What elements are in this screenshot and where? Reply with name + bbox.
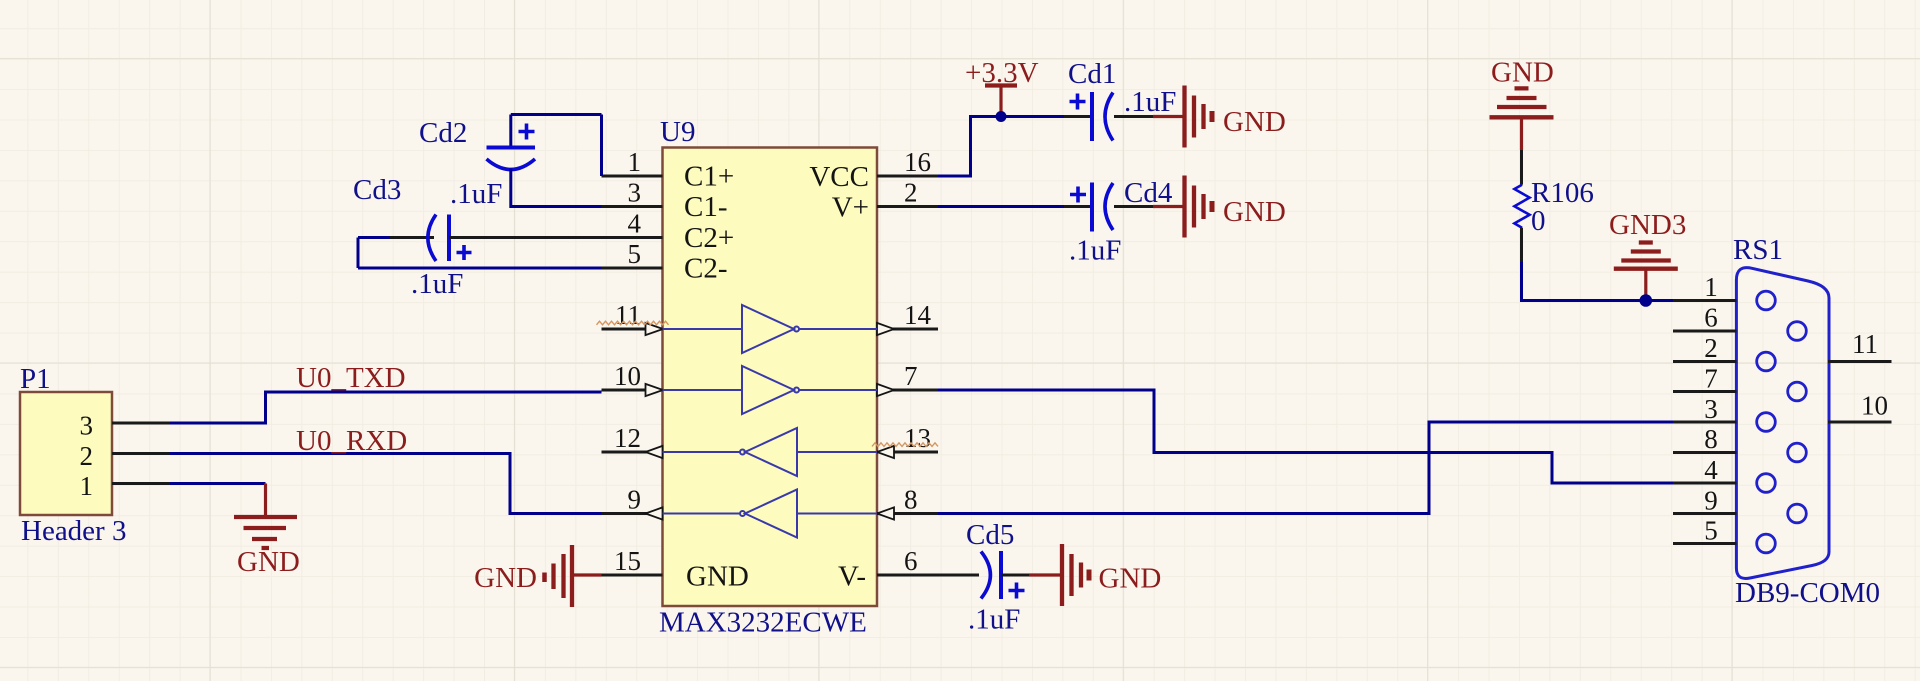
- svg-text:9: 9: [1704, 486, 1718, 516]
- capacitor Cd5: [938, 551, 1029, 599]
- svg-text:7: 7: [1704, 364, 1718, 394]
- capacitor Cd2: [487, 115, 602, 207]
- svg-text:12: 12: [614, 423, 641, 453]
- svg-text:1: 1: [628, 147, 642, 177]
- svg-text:10: 10: [1861, 391, 1888, 421]
- svg-text:U0_RXD: U0_RXD: [296, 425, 407, 457]
- RS1 pin 6 circle: [1788, 322, 1807, 341]
- svg-text:P1: P1: [20, 363, 51, 395]
- power ground GND at U9 pin 15: [545, 545, 602, 607]
- svg-text:GND: GND: [1491, 57, 1554, 89]
- svg-text:4: 4: [628, 209, 642, 239]
- svg-text:U0_TXD: U0_TXD: [296, 362, 406, 394]
- wire U9 pin 8 to RS1 pin 3: [938, 422, 1673, 514]
- wire U9 pin 7 to RS1 pin 4: [938, 390, 1673, 483]
- RS1 pin 6 stub: [1673, 330, 1737, 333]
- svg-text:16: 16: [904, 147, 931, 177]
- svg-text:GND3: GND3: [1609, 209, 1686, 241]
- RS1 pin 10 stub: [1828, 421, 1892, 424]
- svg-text:11: 11: [615, 300, 641, 330]
- junction at +3.3V node: [996, 111, 1007, 122]
- svg-text:.1uF: .1uF: [1124, 86, 1176, 118]
- capacitor Cd1: [1064, 92, 1153, 141]
- U9 pin 6 stub: [877, 574, 938, 577]
- svg-text:1: 1: [80, 471, 94, 501]
- RS1 pin 2 circle: [1757, 352, 1776, 371]
- svg-text:GND: GND: [1099, 563, 1162, 595]
- U9 pin 9 arrow: [646, 507, 663, 519]
- U9 pin 3 stub: [602, 205, 663, 208]
- RS1 pin 11 stub: [1828, 360, 1892, 363]
- svg-text:VCC: VCC: [809, 161, 869, 193]
- RS1 pin 7 stub: [1673, 390, 1737, 393]
- svg-text:GND: GND: [237, 546, 300, 578]
- U9 pin 14 stub: [877, 328, 938, 331]
- U9 pin 14 arrow: [877, 323, 894, 335]
- svg-text:V-: V-: [838, 561, 866, 593]
- resistor R106: [1514, 150, 1529, 262]
- svg-text:.1uF: .1uF: [450, 178, 502, 210]
- wire R106 to RS1 pin 1: [1522, 262, 1674, 301]
- svg-text:6: 6: [904, 546, 918, 576]
- U9 pin 15 stub: [602, 574, 663, 577]
- U9 pin 7 arrow: [877, 384, 894, 396]
- RS1 pin 4 circle: [1757, 474, 1776, 493]
- RS1 pin 2 stub: [1673, 360, 1737, 363]
- svg-text:Cd1: Cd1: [1068, 58, 1116, 90]
- ground GND3: [1614, 243, 1678, 301]
- power ground GND at Cd1: [1153, 86, 1212, 148]
- svg-text:C2-: C2-: [684, 253, 728, 285]
- U9 pin 11 stub: [602, 328, 663, 331]
- svg-text:DB9-COM0: DB9-COM0: [1735, 577, 1880, 609]
- RS1 pin 4 stub: [1673, 482, 1737, 485]
- wire V+ net to Cd4: [938, 205, 1064, 208]
- svg-text:3: 3: [628, 178, 642, 208]
- U9 pin 12 stub: [602, 451, 663, 454]
- P1 pin 2 stub: [112, 452, 170, 455]
- U9 internal buffer T1: [663, 305, 878, 353]
- U9 pin 2 stub: [877, 205, 938, 208]
- RS1 pin 8 circle: [1788, 443, 1807, 462]
- svg-text:Header 3: Header 3: [21, 515, 126, 547]
- wire P1 pin1 to ground: [170, 482, 266, 485]
- power +3.3V symbol: [985, 86, 1017, 117]
- capacitor Cd4: [1064, 183, 1153, 232]
- RS1 pin 1 stub: [1673, 299, 1737, 302]
- ground GND at P1: [234, 484, 297, 549]
- junction at GND3 node: [1640, 294, 1653, 307]
- svg-text:GND: GND: [474, 562, 537, 594]
- svg-text:V+: V+: [832, 192, 869, 224]
- U9 pin 4 stub: [602, 236, 663, 239]
- svg-text:.1uF: .1uF: [968, 604, 1020, 636]
- svg-text:8: 8: [904, 485, 918, 515]
- P1 pin 1 stub: [112, 482, 170, 485]
- U9 pin 12 arrow: [646, 446, 663, 458]
- ground GND top right: [1490, 88, 1554, 150]
- svg-text:GND: GND: [1223, 106, 1286, 138]
- U9 internal buffer T2: [663, 366, 878, 414]
- wire VCC net to +3.3V and Cd1: [938, 117, 1064, 177]
- P1 pin 3 stub: [112, 422, 170, 425]
- RS1 pin 5 circle: [1757, 534, 1776, 553]
- svg-text:.1uF: .1uF: [1069, 235, 1121, 267]
- svg-text:GND: GND: [686, 561, 749, 593]
- U9 internal buffer R2: [663, 490, 878, 538]
- svg-text:U9: U9: [660, 116, 695, 148]
- svg-text:0: 0: [1531, 205, 1546, 237]
- U9 pin 5 stub: [602, 267, 663, 270]
- U9 pin 13 no-ERC squiggle: [872, 443, 938, 447]
- svg-text:MAX3232ECWE: MAX3232ECWE: [659, 607, 867, 639]
- svg-text:11: 11: [1852, 329, 1878, 359]
- RS1 pin 3 circle: [1757, 413, 1776, 432]
- wire net U0_RXD: [170, 454, 602, 514]
- svg-text:2: 2: [80, 441, 94, 471]
- RS1 pin 9 stub: [1673, 512, 1737, 515]
- U9 pin 10 stub: [602, 389, 663, 392]
- U9 pin 8 arrow: [877, 507, 894, 519]
- svg-text:RS1: RS1: [1733, 234, 1783, 266]
- U9 pin 1 stub: [602, 175, 663, 178]
- svg-text:2: 2: [1704, 333, 1718, 363]
- svg-text:7: 7: [904, 361, 918, 391]
- svg-text:3: 3: [1704, 394, 1718, 424]
- U9 pin 13 stub: [877, 451, 938, 454]
- IC U9 body: [663, 148, 878, 607]
- svg-text:C1+: C1+: [684, 161, 734, 193]
- connector P1 body: [20, 392, 112, 515]
- svg-text:2: 2: [904, 178, 918, 208]
- svg-text:5: 5: [628, 239, 642, 269]
- wire net U0_TXD: [170, 392, 602, 423]
- svg-text:1: 1: [1704, 272, 1718, 302]
- U9 internal buffer R1: [663, 428, 878, 476]
- RS1 pin 3 stub: [1673, 421, 1737, 424]
- U9 pin 11 arrow: [646, 323, 664, 335]
- U9 pin 11 no-ERC squiggle: [597, 321, 669, 325]
- svg-text:15: 15: [614, 546, 641, 576]
- svg-text:10: 10: [614, 361, 641, 391]
- svg-text:Cd3: Cd3: [353, 174, 401, 206]
- capacitor Cd3: [358, 215, 602, 269]
- svg-text:4: 4: [1704, 455, 1718, 485]
- RS1 pin 8 stub: [1673, 451, 1737, 454]
- RS1 pin 1 circle: [1757, 291, 1776, 310]
- RS1 pin 9 circle: [1788, 504, 1807, 523]
- RS1 pin 7 circle: [1788, 382, 1807, 401]
- svg-text:+3.3V: +3.3V: [965, 57, 1039, 89]
- U9 pin 16 stub: [877, 175, 938, 178]
- U9 pin 10 arrow: [646, 384, 664, 396]
- svg-text:13: 13: [904, 423, 931, 453]
- U9 pin 8 stub: [877, 512, 938, 515]
- U9 pin 9 stub: [602, 512, 663, 515]
- svg-text:C1-: C1-: [684, 191, 728, 223]
- svg-text:.1uF: .1uF: [411, 268, 463, 300]
- svg-text:8: 8: [1704, 424, 1718, 454]
- svg-text:5: 5: [1704, 516, 1718, 546]
- power ground GND at Cd4: [1153, 176, 1212, 238]
- U9 pin 7 stub: [877, 389, 938, 392]
- U9 pin 13 arrow: [877, 446, 894, 458]
- svg-text:GND: GND: [1223, 196, 1286, 228]
- svg-text:Cd4: Cd4: [1124, 177, 1173, 209]
- svg-text:3: 3: [80, 411, 94, 441]
- svg-text:14: 14: [904, 300, 932, 330]
- svg-text:6: 6: [1704, 303, 1718, 333]
- svg-text:Cd2: Cd2: [419, 117, 467, 149]
- RS1 pin 5 stub: [1673, 542, 1737, 545]
- power ground GND at Cd5: [1029, 544, 1089, 606]
- connector RS1 outline: [1736, 268, 1829, 579]
- svg-text:Cd5: Cd5: [966, 519, 1014, 551]
- svg-text:9: 9: [628, 485, 642, 515]
- svg-text:C2+: C2+: [684, 222, 734, 254]
